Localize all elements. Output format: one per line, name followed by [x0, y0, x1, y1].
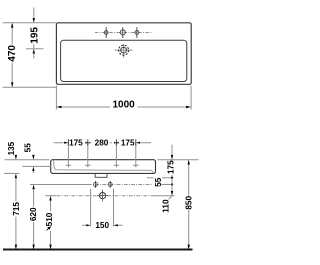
front view body [51, 160, 156, 174]
top view inner bowl [61, 40, 187, 81]
svg-text:470: 470 [7, 45, 18, 62]
svg-text:150: 150 [95, 221, 109, 230]
bolt centerline [30, 184, 88, 186]
drain outlet [97, 190, 108, 202]
tap extension line 3 [115, 143, 117, 168]
svg-text:135: 135 [7, 141, 16, 155]
overflow level tick right [147, 177, 172, 179]
dim 510 [45, 196, 57, 250]
dim 195 [29, 8, 40, 59]
tap extension line 4 [135, 143, 137, 168]
svg-text:620: 620 [29, 207, 38, 221]
siphon space extension right [113, 189, 115, 227]
tap extension line 1 [67, 143, 69, 168]
dim 135 [7, 141, 17, 178]
tap cross 2 [85, 164, 91, 166]
tap hole mark right [135, 27, 139, 38]
extension line 1000 right [190, 86, 192, 110]
rim extension right [158, 159, 199, 161]
dim 55 right [154, 177, 173, 187]
svg-text:1000: 1000 [112, 100, 135, 111]
svg-text:510: 510 [45, 212, 54, 226]
floor line [3, 249, 193, 251]
drain recess notch [95, 174, 107, 178]
tap center extension left [22, 165, 51, 167]
tap extension line 2 [87, 143, 89, 168]
dim 55 left [24, 143, 35, 173]
dim row 175 / 280 / 175 [54, 139, 151, 148]
extension line basin bottom [3, 86, 57, 88]
svg-text:175: 175 [121, 139, 135, 148]
svg-text:280: 280 [95, 139, 109, 148]
dim 110 [162, 185, 174, 213]
svg-text:850: 850 [184, 196, 193, 210]
tap cross 1 [66, 164, 72, 166]
bolt hole right [108, 181, 112, 188]
dim 1000 [56, 100, 191, 111]
bolt hole left [94, 181, 98, 188]
extension line rim top [3, 22, 57, 24]
tap hole mark center [120, 27, 125, 38]
tap cross 4 [133, 164, 139, 166]
tap cross 3 [114, 164, 120, 166]
dim 150 [82, 221, 123, 230]
dim 715 [12, 179, 21, 250]
svg-text:55: 55 [24, 143, 33, 153]
extension tick faucet center [26, 48, 44, 50]
tap hole centerline [95, 32, 152, 34]
svg-text:55: 55 [154, 177, 163, 187]
front view inner bowl outline [54, 160, 153, 173]
siphon space extension left [90, 189, 92, 227]
dim 850 [184, 160, 193, 250]
svg-text:715: 715 [12, 202, 21, 216]
dim 175 right [167, 145, 176, 177]
faucet hole symbol [115, 44, 133, 58]
extension line 1000 left [55, 86, 57, 110]
rim extension left [5, 159, 50, 161]
tap hole mark left [104, 27, 108, 38]
svg-text:195: 195 [29, 27, 40, 44]
svg-text:110: 110 [162, 199, 171, 213]
svg-text:175: 175 [167, 160, 176, 174]
svg-text:175: 175 [69, 139, 83, 148]
dim 620 [29, 185, 38, 250]
dim 470 [7, 23, 18, 87]
body bottom extension left [4, 172, 20, 174]
drain centerline [57, 195, 153, 197]
top view outer rim [56, 23, 191, 85]
